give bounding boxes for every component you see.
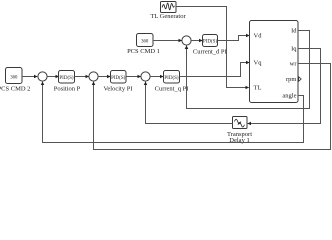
- svg-text:PID(S): PID(S): [59, 76, 74, 81]
- summing junction sum_d: [182, 36, 191, 45]
- wire Current_q PI to Vq pin: [180, 63, 250, 77]
- feedback wire Iq to Transport Delay: [248, 49, 321, 124]
- svg-text:Position P: Position P: [54, 86, 81, 93]
- PID block Position P: [59, 71, 75, 84]
- wire sum_d to Current_d PI: [191, 40, 202, 42]
- svg-text:TL: TL: [254, 85, 262, 92]
- svg-text:angle: angle: [282, 93, 296, 100]
- svg-text:PCS CMD 2: PCS CMD 2: [0, 86, 30, 93]
- svg-text:TL Generator: TL Generator: [150, 13, 186, 20]
- feedback wire Id to sum_d: [187, 31, 310, 109]
- PMSM model block: [250, 21, 299, 103]
- svg-text:wr: wr: [290, 61, 298, 68]
- wire sum3 to Current_q PI: [150, 76, 163, 78]
- wire Position P to sum2: [75, 76, 89, 78]
- svg-text:Current_q PI: Current_q PI: [155, 86, 189, 93]
- svg-text:Velocity PI: Velocity PI: [103, 86, 132, 93]
- svg-text:Vd: Vd: [254, 33, 263, 40]
- feedback wire wr to sum2: [94, 64, 331, 150]
- svg-text:Iq: Iq: [291, 46, 297, 53]
- svg-text:Id: Id: [291, 28, 297, 35]
- svg-text:PID(S): PID(S): [203, 40, 218, 45]
- feedback wire angle to sum1: [43, 82, 304, 143]
- svg-text:Current_d PI: Current_d PI: [193, 48, 227, 55]
- PID block Current_d PI: [203, 35, 218, 47]
- svg-text:Vq: Vq: [254, 60, 263, 67]
- PID block Current_q PI: [164, 71, 180, 84]
- constant PCS CMD 1: [137, 34, 154, 47]
- wire PCS CMD 2 to sum1: [22, 76, 37, 78]
- wire Current_d PI to Vd pin: [218, 36, 250, 41]
- wire sum2 to Velocity PI: [98, 76, 110, 78]
- wire PCS CMD 1 to sum_d: [153, 40, 182, 42]
- rpm open port arrow: [299, 77, 302, 81]
- Transport Delay block: [233, 117, 248, 129]
- wire TL Generator to TL pin: [176, 7, 249, 88]
- svg-text:360: 360: [10, 76, 18, 81]
- svg-text:PID(S): PID(S): [111, 76, 126, 81]
- wire Velocity PI to sum3: [126, 76, 141, 78]
- wire Transport Delay to sum3: [146, 82, 233, 124]
- constant PCS CMD 2: [6, 68, 23, 84]
- summing junction sum3: [141, 72, 150, 81]
- svg-text:PCS CMD 1: PCS CMD 1: [127, 48, 160, 55]
- PID block Velocity PI: [111, 71, 127, 84]
- TL Generator block: [161, 2, 177, 13]
- summing junction sum2: [89, 72, 98, 81]
- svg-text:rpm: rpm: [286, 76, 296, 83]
- wire sum1 to Position P: [47, 76, 59, 78]
- svg-text:360: 360: [141, 40, 149, 45]
- summing junction sum1: [38, 72, 47, 81]
- svg-text:PID(S): PID(S): [164, 76, 179, 81]
